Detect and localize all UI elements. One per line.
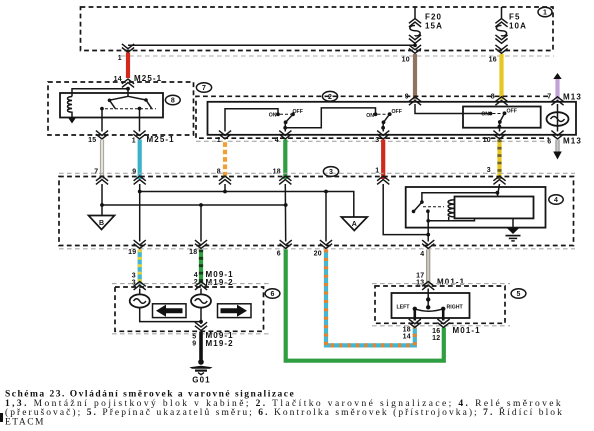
connector pins into box 6 (134, 282, 208, 290)
svg-text:14: 14 (403, 334, 411, 341)
svg-text:15A: 15A (425, 22, 443, 31)
svg-text:1: 1 (543, 10, 547, 17)
wire 1-9 (cyan) (138, 140, 142, 180)
relay internal ground (506, 218, 521, 241)
svg-text:8: 8 (217, 169, 221, 176)
gray harness boundary above boxes 5-6 (112, 283, 510, 285)
gray harness boundary line under box 1 (121, 55, 554, 57)
node B (to left lamps) (89, 205, 115, 230)
svg-text:6: 6 (277, 251, 281, 258)
svg-text:3: 3 (375, 137, 379, 144)
vertical 9-19 (139, 192, 141, 242)
wire 10-3 (yellow striped) (487, 140, 500, 180)
svg-text:12: 12 (432, 335, 440, 342)
M01-1 switch body (solid box) (392, 293, 470, 318)
svg-text:6: 6 (271, 291, 275, 298)
svg-text:M19-2: M19-2 (206, 278, 234, 287)
svg-text:9: 9 (132, 169, 136, 176)
svg-text:14: 14 (114, 76, 122, 83)
svg-text:17: 17 (416, 273, 424, 280)
svg-text:OFF: OFF (507, 109, 517, 115)
svg-text:B: B (99, 220, 104, 227)
gray harness boundary below box 6 (112, 333, 270, 335)
item number 8 bubble (165, 95, 180, 105)
junction block box 3 (dashed) (59, 177, 574, 246)
svg-text:M13: M13 (563, 93, 582, 102)
wire 3-1 (red) (375, 140, 383, 180)
svg-text:ON: ON (269, 113, 277, 119)
svg-text:16: 16 (489, 57, 497, 64)
internal wire: right-turn bus (100, 184, 288, 207)
connector pin 4 at box 3 bottom (420, 240, 434, 258)
node pin14 feed (72, 87, 130, 97)
svg-text:4: 4 (194, 272, 198, 279)
pin 3 feed (422, 184, 500, 202)
connector pins 15 / 1 M25-1 (88, 131, 175, 145)
left arrow icon (153, 304, 187, 318)
svg-text:19: 19 (128, 249, 136, 256)
wire 1-14 (red) (126, 53, 130, 79)
feed wire pin9 to hazard contact (415, 104, 491, 114)
wire 6-16/12 (green, long run) (286, 250, 444, 361)
right indicator lamp (191, 289, 211, 308)
svg-text:3: 3 (132, 273, 136, 280)
turn signal switch box 5 (dashed) (375, 286, 505, 323)
wire 7 M13 (violet, from off-page) (547, 73, 582, 102)
relay contacts (100, 89, 156, 132)
svg-text:4: 4 (420, 251, 424, 258)
connector pin 17/13 entry (422, 282, 434, 290)
svg-text:M25-1: M25-1 (147, 135, 175, 144)
wire 19-3 (cyan/yellow striped) (132, 250, 140, 287)
relay output wire to pin 4 (426, 211, 430, 241)
svg-text:20: 20 (314, 251, 322, 258)
coil return wire (426, 218, 474, 222)
relay coil (68, 97, 77, 124)
gray harness boundary below box 5 (372, 325, 510, 327)
caption line 2 (5, 399, 563, 409)
item number 7 bubble (196, 83, 211, 93)
svg-text:5: 5 (517, 291, 521, 298)
svg-text:ETACM: ETACM (5, 417, 45, 427)
svg-text:1: 1 (375, 168, 379, 175)
svg-text:18: 18 (189, 249, 197, 256)
svg-text:F20: F20 (425, 13, 442, 22)
connector pin 8 entry (495, 97, 507, 105)
ETACM block box 7 (dashed) (48, 82, 194, 135)
wire 6 M13 ground (gray, off-page down) (553, 140, 562, 160)
wire 18-4/2 (green/black striped) (194, 250, 234, 287)
vertical 18-6 (284, 184, 286, 242)
connector pin 5/9 exit (192, 322, 233, 348)
svg-text:2: 2 (328, 94, 332, 101)
svg-text:ON: ON (481, 112, 489, 118)
svg-text:16: 16 (432, 328, 440, 335)
wire 20-18/14 (cyan/orange striped, long run) (326, 250, 415, 346)
caption line 3 (5, 406, 564, 418)
wire 10-9 (brown) (402, 54, 415, 101)
svg-text:OFF: OFF (293, 109, 303, 115)
bus wire inside box 1 (128, 44, 415, 46)
svg-text:9: 9 (192, 341, 196, 348)
left indicator lamp (130, 289, 150, 308)
item number 6 bubble (265, 289, 280, 299)
svg-text:M01-1: M01-1 (453, 326, 481, 335)
svg-text:LEFT: LEFT (397, 304, 411, 310)
svg-text:4: 4 (275, 137, 279, 144)
svg-text:1: 1 (118, 55, 122, 62)
link wire to contact 2 (287, 108, 376, 128)
relay 4 switch (412, 200, 444, 213)
ground wire to G01 (199, 332, 203, 362)
turn switch mechanism (397, 289, 464, 321)
connector pin 7 entry (551, 97, 563, 105)
turn relay 4 (solid box) (406, 187, 546, 228)
item number 3 bubble (323, 167, 338, 177)
svg-text:OFF: OFF (392, 109, 402, 115)
hazard switch contact 2 (366, 109, 402, 132)
caption title (5, 390, 295, 400)
svg-text:5: 5 (192, 334, 196, 341)
right arrow icon (218, 304, 252, 318)
hazard switch box 2 (dashed) (196, 96, 549, 138)
inner contact housing (solid box) (463, 107, 541, 128)
svg-text:7: 7 (202, 85, 206, 92)
connector pin 9 entry (409, 97, 421, 105)
hazard switch contact 1 (225, 109, 303, 132)
indicator cluster box 6 (dashed) (115, 287, 264, 331)
svg-text:1: 1 (217, 137, 221, 144)
connector pins at box 2 bottom (217, 131, 582, 146)
svg-text:M19-2: M19-2 (206, 339, 234, 348)
item number 4 bubble (549, 195, 563, 205)
fuse F20 15A (409, 7, 443, 53)
relay 4 coil (448, 200, 454, 221)
illumination lamp in M13 (547, 104, 569, 132)
svg-text:1: 1 (132, 138, 136, 145)
connector at wire 1 exit of box 1 (118, 44, 134, 62)
svg-text:4: 4 (554, 197, 558, 204)
M13 switch unit (solid box) (208, 102, 577, 135)
connector pins 18/14 and 16/12 (403, 319, 481, 342)
internal wire: left-turn bus (138, 184, 354, 217)
svg-text:M13: M13 (563, 137, 582, 146)
lamp return wires (140, 308, 203, 324)
svg-text:M25-1: M25-1 (134, 74, 162, 83)
connector pin 14 M25-1 (114, 74, 163, 87)
node A feeder (325, 192, 327, 242)
svg-text:6: 6 (547, 139, 551, 146)
svg-text:10: 10 (483, 137, 491, 144)
wire 1-8 (orange striped) (217, 140, 225, 180)
svg-text:15: 15 (88, 137, 96, 144)
gray harness boundary above box 3 (59, 172, 575, 174)
wire 4-17/13 (gray) (416, 250, 465, 287)
svg-text:18: 18 (403, 327, 411, 334)
connector pins at box 3 bottom (128, 240, 332, 257)
connector pins at box 3 top (94, 169, 505, 185)
svg-text:RIGHT: RIGHT (447, 304, 464, 310)
pin 1 wire to relay (383, 184, 428, 235)
relay unit 8 (solid box) (60, 93, 163, 118)
svg-text:F5: F5 (509, 13, 521, 22)
ground G01 (190, 359, 213, 384)
svg-text:10A: 10A (509, 22, 527, 31)
wire 15-7 (white/gray) (100, 140, 104, 180)
fuse F5 10A (495, 7, 527, 53)
item number 5 bubble (511, 289, 526, 299)
relay flasher unit (inner box) (455, 197, 534, 219)
caption line 4 (5, 417, 45, 427)
svg-text:3: 3 (329, 169, 333, 176)
item number 1 bubble (538, 7, 552, 17)
svg-text:A: A (352, 221, 357, 228)
wire 4-18 (green) (273, 140, 286, 180)
gray harness boundary below box 2 (196, 140, 549, 142)
svg-text:(přerušovač); 5. Přepínač ukaz: (přerušovač); 5. Přepínač ukazatelů směr… (5, 406, 564, 418)
svg-text:18: 18 (273, 169, 281, 176)
hazard main contact (in housing) (481, 109, 517, 132)
node A (to right lamps) (341, 217, 367, 231)
fuse block box 1 (dashed) (81, 7, 554, 51)
vertical drop to pin 18 (200, 205, 202, 242)
svg-text:10: 10 (402, 57, 410, 64)
svg-text:8: 8 (171, 98, 175, 105)
wire 16-8 (yellow) (489, 54, 502, 101)
svg-text:G01: G01 (192, 376, 210, 385)
wire 8 drop to bus (224, 184, 226, 192)
page edge mark (0, 413, 3, 422)
svg-text:7: 7 (94, 169, 98, 176)
svg-text:8: 8 (491, 94, 495, 101)
item number 2 bubble (322, 91, 337, 101)
svg-text:ON: ON (366, 113, 374, 119)
gray harness boundary below box 3 (59, 248, 575, 250)
